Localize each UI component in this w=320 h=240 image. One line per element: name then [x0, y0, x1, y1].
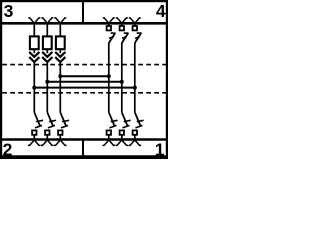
svg-text:4: 4 [156, 1, 166, 21]
svg-text:2: 2 [3, 140, 13, 159]
svg-text:3: 3 [4, 1, 14, 21]
svg-text:1: 1 [155, 140, 165, 159]
